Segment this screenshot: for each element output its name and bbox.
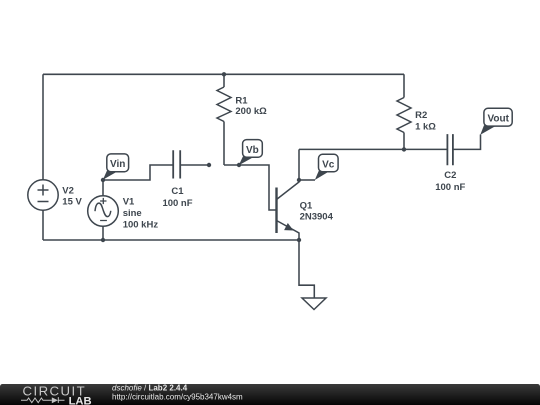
- label R1 value: [235, 95, 267, 117]
- svg-text:100 kHz: 100 kHz: [123, 219, 159, 230]
- svg-text:http://circuitlab.com/cy95b347: http://circuitlab.com/cy95b347kw4sm: [112, 393, 243, 402]
- svg-text:sine: sine: [123, 208, 142, 219]
- voltage source V1 (sine): [88, 196, 119, 227]
- svg-text:V2: V2: [62, 185, 74, 196]
- wire V1 bottom lead: [102, 226, 104, 240]
- node Vb flag: [239, 140, 263, 166]
- svg-text:1 kΩ: 1 kΩ: [415, 122, 436, 133]
- CircuitLab logo: [21, 383, 92, 405]
- wire collector vertical: [298, 149, 300, 180]
- capacitor C1: [173, 150, 180, 178]
- node R1 top junction: [222, 72, 226, 76]
- node R2 bottom junction: [402, 147, 406, 151]
- voltage source V2: [28, 180, 58, 210]
- label C1 value: [162, 186, 192, 209]
- wire V2 top lead: [42, 74, 44, 180]
- svg-text:100 nF: 100 nF: [162, 198, 192, 209]
- svg-text:R1: R1: [235, 95, 248, 106]
- wire V1 top lead: [102, 180, 104, 196]
- wire Vin node to C1: [103, 165, 173, 180]
- svg-text:Vc: Vc: [322, 159, 335, 170]
- wire bottom rail: [43, 239, 299, 241]
- node Vin junction: [101, 178, 105, 182]
- resistor R2: [397, 98, 411, 133]
- banner background: [0, 384, 540, 405]
- wire R1 to base: [224, 165, 276, 210]
- svg-text:dschofie / Lab2 2.4.4: dschofie / Lab2 2.4.4: [112, 384, 188, 393]
- node C1 open endpoint: [207, 163, 211, 167]
- label V1 value: [123, 196, 159, 230]
- node Vc flag: [315, 154, 338, 180]
- svg-text:Q1: Q1: [300, 201, 313, 212]
- wire R1 bottom lead: [223, 122, 225, 166]
- svg-text:Vin: Vin: [110, 159, 125, 170]
- wire C1 right lead: [180, 164, 209, 166]
- label C2 value: [435, 170, 465, 193]
- svg-text:Vout: Vout: [487, 114, 509, 125]
- svg-text:C2: C2: [444, 170, 456, 181]
- label Q1 value: [300, 201, 334, 223]
- wire emitter to ground: [299, 240, 314, 298]
- transistor Q1: [277, 180, 300, 240]
- svg-text:15 V: 15 V: [62, 197, 82, 208]
- svg-text:Vb: Vb: [246, 145, 259, 156]
- node Vout flag: [480, 108, 512, 135]
- label V2 value: [62, 185, 82, 207]
- svg-text:2N3904: 2N3904: [300, 212, 334, 223]
- node Vin flag: [103, 154, 129, 180]
- wire Vc stub: [299, 179, 315, 181]
- node junction dots: [101, 72, 406, 242]
- wire R2 top lead: [403, 74, 405, 97]
- label R2 value: [415, 110, 436, 133]
- wire V2 bottom lead: [42, 210, 44, 240]
- wire R2 bottom lead: [403, 133, 405, 150]
- node collector junction: [297, 178, 301, 182]
- wire R1 top lead: [223, 74, 225, 87]
- node V1 bottom junction: [101, 238, 105, 242]
- svg-text:LAB: LAB: [69, 395, 92, 405]
- capacitor C2: [447, 134, 453, 165]
- svg-text:100 nF: 100 nF: [435, 182, 465, 193]
- svg-text:R2: R2: [415, 110, 427, 121]
- wire top rail: [43, 73, 404, 75]
- node Vb junction: [237, 163, 241, 167]
- resistor R1: [217, 87, 231, 122]
- wire mid rail: [299, 148, 447, 150]
- node emitter junction: [297, 238, 301, 242]
- banner title text: [112, 384, 243, 402]
- svg-text:V1: V1: [123, 196, 135, 207]
- wire C2 right lead: [453, 135, 481, 150]
- svg-text:C1: C1: [171, 186, 184, 197]
- ground: [302, 298, 326, 310]
- svg-text:200 kΩ: 200 kΩ: [235, 106, 267, 117]
